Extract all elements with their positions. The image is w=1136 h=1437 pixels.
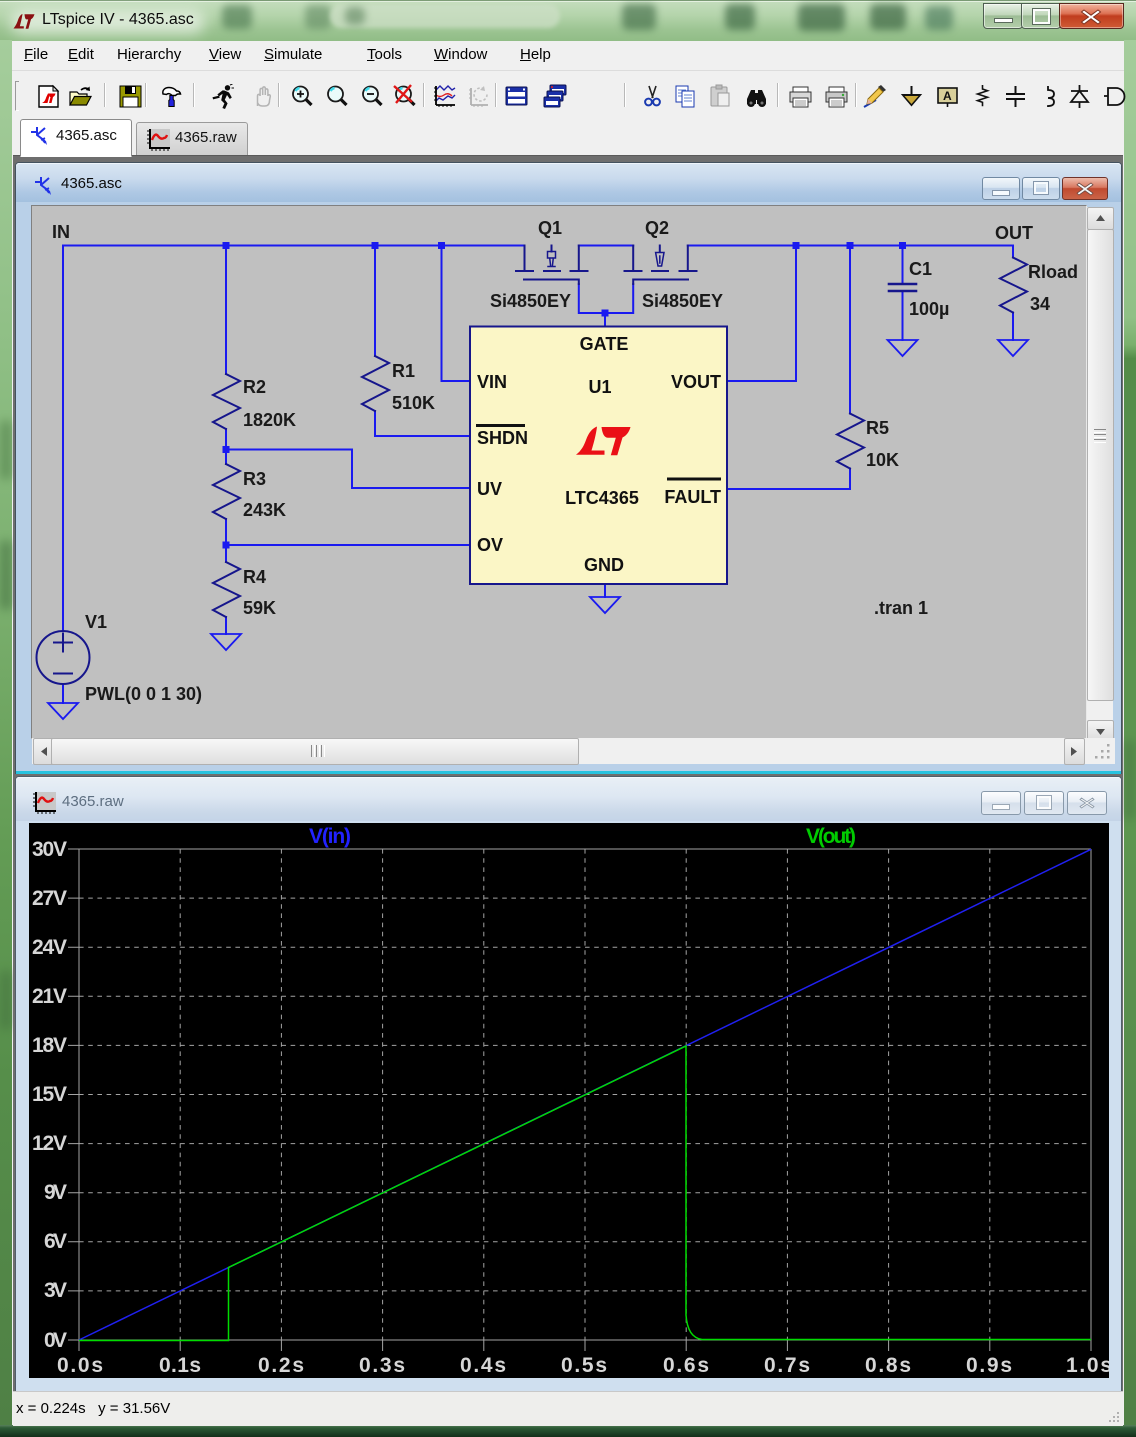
- wire gate Q2: [606, 284, 633, 313]
- v scrollbar: [1087, 207, 1113, 741]
- svg-text:21V: 21V: [32, 985, 67, 1008]
- svg-text:24V: 24V: [32, 936, 67, 959]
- svg-text:6V: 6V: [44, 1230, 67, 1253]
- wire OV net: [226, 544, 470, 546]
- wire R4 bottom to ground: [225, 545, 227, 634]
- svg-text:V(in): V(in): [309, 825, 351, 848]
- wire rail to R1: [374, 246, 376, 357]
- svg-text:9V: 9V: [44, 1181, 67, 1204]
- svg-text:IN: IN: [52, 222, 70, 242]
- svg-text:OV: OV: [477, 535, 503, 555]
- svg-text:0.1s: 0.1s: [159, 1354, 201, 1377]
- wire rail to Rload: [1012, 246, 1014, 258]
- waveform child window 4365.raw: [15, 776, 1122, 1392]
- junction R2/R3/UV: [223, 446, 230, 453]
- junction rail/VOUT: [793, 242, 800, 249]
- svg-text:0.4s: 0.4s: [460, 1354, 506, 1377]
- wire IN rail: [63, 245, 525, 247]
- svg-text:Q1: Q1: [538, 218, 562, 238]
- wire IN down to V1: [62, 246, 64, 632]
- svg-text:0.9s: 0.9s: [966, 1354, 1012, 1377]
- ground under R4: [211, 634, 241, 650]
- svg-text:.tran 1: .tran 1: [874, 598, 928, 618]
- svg-text:0.2s: 0.2s: [258, 1354, 304, 1377]
- transistor Q1: [516, 246, 588, 285]
- svg-text:0.3s: 0.3s: [359, 1354, 405, 1377]
- ground under Rload: [998, 340, 1028, 356]
- wire gate Q1: [579, 284, 604, 313]
- svg-text:12V: 12V: [32, 1132, 67, 1155]
- wire C1 to ground: [902, 292, 904, 341]
- junction rail/VIN: [438, 242, 445, 249]
- svg-text:SHDN: SHDN: [477, 428, 528, 448]
- junction rail/R1: [372, 242, 379, 249]
- resistor R1: [362, 356, 389, 411]
- svg-text:1.0s: 1.0s: [1066, 1354, 1109, 1377]
- svg-text:Si4850EY: Si4850EY: [490, 291, 571, 311]
- wire Q2-drain to OUT rail: [688, 245, 1013, 247]
- svg-text:510K: 510K: [392, 393, 435, 413]
- overline FAULT: [667, 478, 721, 481]
- wire R3 to OV node: [225, 450, 227, 546]
- LT logo: [576, 427, 631, 456]
- app icon: [13, 13, 35, 30]
- ground under C1: [888, 340, 918, 356]
- capacitor C1: [889, 284, 916, 291]
- ground under U1 GND: [590, 597, 620, 613]
- svg-text:VOUT: VOUT: [671, 372, 721, 392]
- caption buttons: [983, 3, 1023, 29]
- svg-text:0.0s: 0.0s: [57, 1354, 103, 1377]
- overline SHDN: [476, 424, 525, 427]
- svg-text:R5: R5: [866, 418, 889, 438]
- h scrollbar: [32, 738, 1085, 764]
- wire VIN net: [442, 246, 471, 382]
- resistor R4: [213, 562, 240, 617]
- svg-text:GATE: GATE: [580, 334, 629, 354]
- svg-text:18V: 18V: [32, 1034, 67, 1057]
- svg-text:R3: R3: [243, 469, 266, 489]
- svg-text:59K: 59K: [243, 598, 276, 618]
- svg-text:10K: 10K: [866, 450, 899, 470]
- resistor Rload: [1000, 258, 1027, 313]
- canvas: [31, 205, 1087, 739]
- svg-text:UV: UV: [477, 479, 502, 499]
- svg-text:PWL(0 0 1 30): PWL(0 0 1 30): [85, 684, 202, 704]
- svg-text:V(out): V(out): [806, 825, 856, 848]
- svg-text:R4: R4: [243, 567, 266, 587]
- svg-text:0.7s: 0.7s: [764, 1354, 810, 1377]
- IC U1 LTC4365: [470, 327, 727, 585]
- svg-text:C1: C1: [909, 259, 932, 279]
- svg-text:Q2: Q2: [645, 218, 669, 238]
- wire Q1-source to Q2-source: [579, 245, 633, 247]
- wire VOUT net: [727, 246, 796, 382]
- wire FAULT net: [727, 469, 850, 490]
- wire UV net: [226, 429, 470, 488]
- ground under V1: [48, 703, 78, 719]
- svg-text:FAULT: FAULT: [664, 487, 721, 507]
- resistor R5: [837, 414, 864, 469]
- svg-text:OUT: OUT: [995, 223, 1033, 243]
- junction R3/R4/OV: [223, 542, 230, 549]
- svg-text:V1: V1: [85, 612, 107, 632]
- junction rail/C1: [899, 242, 906, 249]
- svg-text:30V: 30V: [32, 838, 67, 861]
- wire gate node to U1 GATE pin: [604, 313, 606, 327]
- wire V1 to ground: [62, 684, 64, 703]
- svg-text:GND: GND: [584, 555, 624, 575]
- svg-text:243K: 243K: [243, 500, 286, 520]
- wire SHDN net: [375, 411, 470, 436]
- svg-text:Si4850EY: Si4850EY: [642, 291, 723, 311]
- svg-text:U1: U1: [588, 377, 611, 397]
- svg-text:VIN: VIN: [477, 372, 507, 392]
- svg-text:LTC4365: LTC4365: [565, 488, 639, 508]
- wire rail to C1: [902, 246, 904, 284]
- svg-text:R2: R2: [243, 377, 266, 397]
- svg-text:15V: 15V: [32, 1083, 67, 1106]
- svg-text:100µ: 100µ: [909, 299, 949, 319]
- svg-text:R1: R1: [392, 361, 415, 381]
- voltage source V1: [37, 631, 90, 684]
- wire U1 GND pin to ground: [604, 584, 606, 597]
- junction rail/R2: [223, 242, 230, 249]
- svg-text:0.6s: 0.6s: [663, 1354, 709, 1377]
- wire rail to R5: [849, 246, 851, 414]
- junction gate node: [602, 310, 609, 317]
- svg-text:34: 34: [1030, 294, 1050, 314]
- svg-text:27V: 27V: [32, 887, 67, 910]
- resistor R3: [213, 464, 240, 519]
- svg-text:3V: 3V: [44, 1279, 67, 1302]
- svg-text:0.8s: 0.8s: [865, 1354, 911, 1377]
- junction rail/R5: [847, 242, 854, 249]
- transistor Q2: [625, 246, 697, 285]
- resistor R2: [213, 374, 240, 429]
- schematic child window 4365.asc: [15, 162, 1122, 774]
- svg-text:0.5s: 0.5s: [561, 1354, 607, 1377]
- svg-text:1820K: 1820K: [243, 410, 296, 430]
- svg-text:Rload: Rload: [1028, 262, 1078, 282]
- svg-text:0V: 0V: [44, 1329, 67, 1352]
- wire Rload to ground: [1012, 313, 1014, 341]
- svg-text:A: A: [943, 89, 952, 103]
- wire rail to R2: [225, 246, 227, 375]
